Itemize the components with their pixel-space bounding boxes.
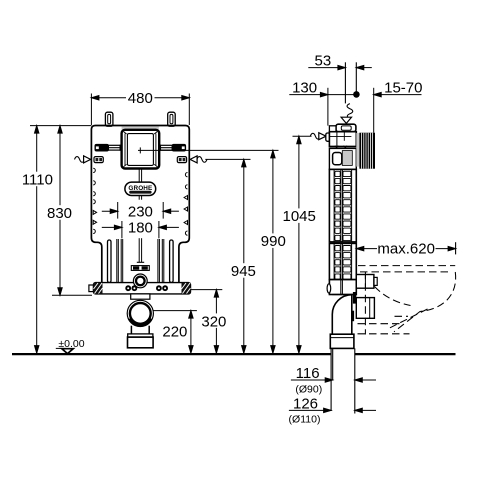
svg-text:1045: 1045	[283, 208, 316, 225]
anchor rod right	[160, 144, 185, 151]
side cap step plate	[329, 126, 336, 132]
drain neck	[131, 294, 150, 299]
side valve crosshair	[329, 132, 351, 141]
bottom bracket	[89, 283, 191, 294]
outlet pipe front	[128, 326, 154, 348]
svg-text:max.620: max.620	[377, 241, 435, 258]
black detail bar	[131, 266, 149, 271]
water inlet arrow right with 945 leader	[190, 156, 250, 163]
svg-text:220: 220	[162, 323, 187, 340]
svg-text:830: 830	[47, 205, 72, 222]
side coupling	[330, 334, 354, 348]
side seam band	[329, 146, 356, 150]
dimension 180	[102, 221, 179, 238]
elbow	[332, 295, 356, 335]
side bottom section	[329, 280, 356, 295]
inspection window side shading lines	[124, 132, 158, 167]
dimension 130	[289, 88, 356, 126]
dimension 220 tick	[153, 310, 197, 312]
svg-text:180: 180	[128, 220, 153, 237]
dimension 53	[308, 65, 372, 69]
window center cross	[139, 147, 141, 153]
GROHE logo	[125, 182, 156, 195]
inspection window inner frame	[127, 134, 153, 166]
grey gap strip at wall	[356, 133, 359, 167]
floor line	[12, 353, 456, 355]
dimension 15-70	[374, 88, 422, 133]
dimension 320	[214, 290, 218, 354]
pipe clamp oval	[327, 284, 331, 293]
narrow section inner pipes left	[117, 239, 123, 283]
svg-text:130: 130	[292, 79, 317, 96]
tank outline	[91, 126, 189, 284]
ladder rungs upper	[335, 171, 351, 240]
frame rails above cistern	[345, 62, 356, 103]
svg-text:945: 945	[231, 263, 256, 280]
inspection window outer frame	[122, 130, 160, 169]
side cap	[336, 124, 356, 132]
flush valve circle	[133, 274, 147, 288]
side lower band	[329, 242, 356, 244]
tank top tab right	[168, 112, 176, 126]
side mid grey column	[342, 151, 352, 166]
dimension 830	[52, 126, 92, 296]
svg-text:320: 320	[201, 313, 226, 330]
inspection window grey strip	[122, 127, 159, 130]
narrow section inner pipes right	[158, 239, 164, 283]
side upper body	[329, 132, 356, 147]
upper connector box	[356, 275, 377, 289]
drain circle	[127, 300, 153, 326]
dimension 126 (Ø110)	[289, 408, 376, 412]
svg-text:15-70: 15-70	[384, 79, 422, 96]
svg-text:(Ø90): (Ø90)	[295, 384, 322, 396]
side mid body	[329, 148, 356, 169]
dimension 1110	[30, 126, 91, 354]
flush pipe stubs	[137, 169, 144, 263]
anchor rod left	[95, 144, 120, 151]
svg-text:(Ø110): (Ø110)	[289, 414, 321, 426]
dimension 230	[102, 202, 179, 219]
water inlet arrow left	[75, 156, 91, 163]
dimension 320 tick	[191, 289, 223, 291]
ladder rungs lower	[335, 246, 351, 280]
dimension 990	[271, 150, 275, 353]
svg-text:990: 990	[261, 233, 286, 250]
side rounded square	[333, 153, 342, 165]
tank left edge bumps	[93, 168, 96, 233]
svg-text:116: 116	[296, 365, 320, 382]
tank right edge bumps	[184, 173, 187, 236]
wall anchor striped block	[359, 133, 375, 169]
narrow section rod left	[108, 240, 112, 283]
dimension 1045	[297, 136, 301, 353]
connector fitting right	[177, 157, 186, 163]
svg-text:230: 230	[128, 203, 153, 220]
centerline from window center to 990 line	[138, 149, 279, 151]
narrow section rod right	[170, 240, 174, 283]
svg-text:126: 126	[293, 395, 318, 412]
side ladder upper section	[329, 169, 356, 242]
svg-text:1110: 1110	[22, 172, 53, 189]
toilet bowl dashed outline	[358, 266, 456, 335]
dimension 945	[242, 159, 246, 353]
tank top tab left	[105, 112, 113, 126]
dimension 220	[189, 311, 193, 354]
dimension 480	[91, 94, 189, 126]
dimension max.620	[356, 242, 455, 254]
side ladder lower section	[329, 243, 356, 279]
side body inner line	[336, 132, 338, 147]
elbow section fills	[353, 292, 356, 304]
dimension 116 (Ø90)	[291, 378, 376, 382]
dimension 1045 leader with squiggle arrow	[293, 133, 327, 140]
side wall bump	[326, 133, 330, 141]
lower connector box	[356, 298, 374, 319]
wall plane dot	[353, 91, 360, 98]
water inlet arrow down	[341, 104, 353, 124]
connector fitting left	[94, 157, 103, 163]
side cap inner slot	[341, 126, 351, 130]
svg-text:480: 480	[128, 90, 153, 107]
svg-text:53: 53	[315, 52, 332, 69]
below floor pipe lines	[331, 348, 355, 413]
